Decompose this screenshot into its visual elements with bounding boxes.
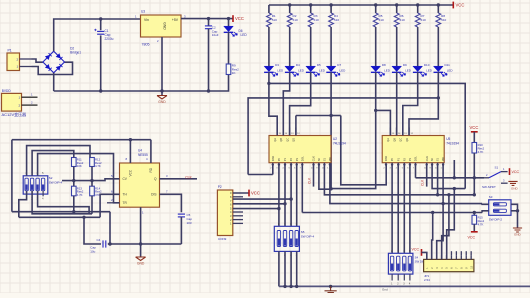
wire JP1 pin4 elbow <box>442 195 449 260</box>
wire U5 MR drop <box>442 165 444 204</box>
svg-text:VCC: VCC <box>456 3 465 8</box>
svg-text:10u: 10u <box>90 250 95 254</box>
ground S3 <box>513 228 522 232</box>
svg-text:D5: D5 <box>317 63 321 67</box>
svg-text:VCC: VCC <box>129 169 133 176</box>
node S1 net junction <box>436 193 439 196</box>
wire JP1 pin stub <box>470 255 472 259</box>
node R10/S1 junction <box>473 176 476 179</box>
wire loop to 555 TH <box>100 194 119 217</box>
wire bottom loop h1 <box>12 211 110 213</box>
node gnd column junction <box>139 242 142 245</box>
connector P2 <box>217 190 232 236</box>
svg-text:QD: QD <box>405 138 409 142</box>
wire S1 throw1 stub <box>501 171 508 173</box>
svg-text:P2: P2 <box>289 157 293 161</box>
wire R3 to LED <box>310 27 312 66</box>
svg-text:7805: 7805 <box>142 43 150 47</box>
svg-text:4.7K: 4.7K <box>478 222 484 226</box>
node loop/C4 junction <box>108 242 111 245</box>
LED D7 <box>326 66 336 71</box>
svg-text:P1: P1 <box>396 157 400 161</box>
svg-text:U3: U3 <box>141 10 145 14</box>
wire U2 CLK stub <box>313 165 315 187</box>
capacitor C5 103 <box>178 213 185 215</box>
svg-text:CON9: CON9 <box>218 237 227 241</box>
op-amp U2 74LS194 shift register <box>269 136 331 163</box>
node rail/R7 junction <box>416 3 419 6</box>
svg-text:+5V: +5V <box>172 18 179 22</box>
LED D3 <box>264 66 274 71</box>
wire S3 out1 to gnd <box>511 204 518 228</box>
wire C4 to C5 column <box>108 243 182 245</box>
wire JP1 bare pin <box>465 251 467 255</box>
resistor R7 510 <box>415 13 420 27</box>
wire JP1 pin stub <box>450 255 452 259</box>
power VCC top right <box>452 2 454 9</box>
wire U2 S0 right <box>319 165 331 190</box>
wire net DSL to S3 <box>302 212 482 214</box>
wire U2 P1 column to DIP <box>284 165 286 227</box>
wire U2 DSR left <box>248 174 273 176</box>
wire S3 pin2 <box>482 211 489 213</box>
svg-text:QB: QB <box>392 138 396 142</box>
wire D7 net to U2 pin QD <box>296 115 331 117</box>
wire S2-1 bottom loop <box>19 191 27 218</box>
svg-text:P2: P2 <box>402 157 406 161</box>
wire R12 to R14 <box>91 167 93 187</box>
wire P2 stub <box>233 196 243 198</box>
svg-text:CLK: CLK <box>185 176 192 180</box>
wire U2 DSR drop <box>272 165 274 175</box>
svg-text:U2: U2 <box>333 137 337 141</box>
wire P1 pin1 to bridge AC2 <box>32 62 73 74</box>
svg-text:Bridge1: Bridge1 <box>70 50 81 54</box>
svg-text:510: 510 <box>400 18 405 22</box>
wire R6 top <box>396 5 398 13</box>
svg-text:CLK: CLK <box>308 177 312 184</box>
svg-text:QC: QC <box>285 138 289 142</box>
LED D10 <box>413 66 423 71</box>
resistor R6 510 <box>394 13 399 27</box>
svg-text:GND: GND <box>514 233 522 237</box>
wire JP1 pin5 elbow <box>447 189 455 260</box>
wire 555 DIS stub <box>160 193 167 195</box>
wire R junction net to 555 CV <box>62 179 120 181</box>
wire P2 pin7 net <box>233 203 285 205</box>
svg-text:GND: GND <box>137 261 145 265</box>
wire R15 to VCC <box>473 224 475 232</box>
wire JP1 pin stub <box>431 255 433 259</box>
wire R11 to R13 <box>73 167 75 187</box>
wire S5 pin2 to gnd bus <box>290 251 292 286</box>
LED D8 <box>371 66 381 71</box>
wire 555 OUT <box>160 178 198 180</box>
wire stub right riser <box>453 160 455 178</box>
svg-text:1K: 1K <box>232 71 236 75</box>
node C1/rail junction <box>99 17 102 20</box>
wire 555 pin4 up <box>150 140 152 163</box>
wire long net from U2 DSR riser <box>248 98 438 175</box>
node rail/R8 junction <box>437 3 440 6</box>
svg-text:QC: QC <box>399 138 403 142</box>
wire S4 bottom stub <box>409 274 411 280</box>
node MR net junction <box>441 202 444 205</box>
power VCC S1 <box>509 168 511 175</box>
wire U5 S1 drop <box>437 165 439 195</box>
svg-text:SW-SPDT: SW-SPDT <box>482 185 496 189</box>
power VCC R15 <box>471 231 478 233</box>
svg-text:510: 510 <box>272 18 277 22</box>
wire R2 to LED <box>289 27 291 66</box>
connector JP1 <box>424 259 474 271</box>
wire 555 gnd pin down <box>140 207 142 256</box>
svg-text:D7: D7 <box>337 63 341 67</box>
svg-text:LED: LED <box>426 68 433 72</box>
wire jog to cascade <box>331 115 341 117</box>
svg-text:510: 510 <box>293 18 298 22</box>
wire left outer loop vertical <box>11 140 13 212</box>
svg-text:U5: U5 <box>446 137 450 141</box>
wire JP1 bare pin <box>455 251 457 255</box>
svg-text:DSR: DSR <box>271 156 275 162</box>
wire P1 pin1 stub <box>20 66 32 68</box>
wire S2-1 to R12 top <box>27 146 90 176</box>
svg-text:C4: C4 <box>97 238 101 242</box>
wire cascade QD to U5 DSR <box>341 116 386 185</box>
svg-text:GND: GND <box>158 100 166 104</box>
wire R5 to LED <box>375 27 377 66</box>
wire JP1 bare pin <box>470 251 472 255</box>
wire D8 cathode to U5 pin QA <box>376 72 391 136</box>
wire JP1 bare pin <box>450 251 452 255</box>
svg-text:D10: D10 <box>424 63 430 67</box>
svg-text:VCC: VCC <box>470 125 479 130</box>
node D11 net junction <box>437 96 440 99</box>
svg-text:D6: D6 <box>239 29 243 33</box>
wire C2 top <box>208 19 210 26</box>
node R12/R14 junction <box>90 179 93 182</box>
svg-text:DSL: DSL <box>414 156 418 162</box>
resistor R4 510 <box>329 13 334 27</box>
svg-text:QA: QA <box>386 138 390 142</box>
wire S1 common stub <box>484 177 489 179</box>
wire JP1 pin3 elbow <box>437 204 443 260</box>
node P2-7 junction <box>283 202 286 205</box>
node JP1-5 junction <box>453 187 456 190</box>
wire S3 out2 <box>511 210 518 212</box>
wire P2 pin8 net <box>233 198 291 200</box>
svg-text:CLK: CLK <box>421 179 425 186</box>
node JP1-4 junction <box>447 193 450 196</box>
svg-text:P2: P2 <box>218 185 222 189</box>
wire loop h217 <box>19 216 100 218</box>
wire JP1 pin2 riser <box>432 213 433 260</box>
svg-text:DSL: DSL <box>300 156 304 162</box>
resistor R14 4.7K <box>90 186 95 196</box>
wire JP1 pin stub <box>455 255 457 259</box>
wire 555 pin8 up <box>129 140 131 163</box>
resistor R11 10K <box>72 158 77 167</box>
wire bridge - down to gnd rail <box>53 73 55 91</box>
wire R3 top <box>310 5 312 13</box>
wire P2 pin6 net <box>233 208 279 210</box>
svg-text:2200u: 2200u <box>105 37 114 41</box>
node rail/R3 junction <box>309 3 312 6</box>
wire BVDD pin2 stub <box>22 104 38 106</box>
svg-text:VCC: VCC <box>512 170 520 174</box>
bridge rectifier D2 <box>43 51 65 73</box>
wire VCC to JP1 pin1 <box>422 252 427 259</box>
svg-text:Gnd: Gnd <box>382 288 388 292</box>
wire JP1 pin stub <box>460 255 462 259</box>
wire 555 TH stub <box>112 193 120 195</box>
svg-text:74LS194: 74LS194 <box>333 141 346 145</box>
svg-text:4.7K: 4.7K <box>478 150 484 154</box>
LED D5 <box>306 66 316 71</box>
node D8 net junction <box>374 109 377 112</box>
resistor R9 1K <box>226 64 231 75</box>
wire C1 top <box>100 19 102 30</box>
ground GND bus <box>329 285 332 288</box>
node C1/gnd-rail junction <box>99 89 102 92</box>
wire top VCC rail <box>269 4 453 6</box>
node C2/gnd-rail junction <box>207 89 210 92</box>
wire U2 P3 column to DIP <box>296 165 298 227</box>
wire BVDD pin1 stub <box>22 96 38 98</box>
wire C1 bottom <box>100 35 102 91</box>
svg-text:510: 510 <box>441 18 446 22</box>
wire S3 pin1 <box>482 203 489 206</box>
wire U5 P0 column to DIP <box>391 165 393 254</box>
svg-text:D3: D3 <box>275 63 279 67</box>
svg-text:510: 510 <box>379 18 384 22</box>
wire D6 anode <box>228 19 230 27</box>
wire VCC to R10 <box>473 132 475 143</box>
wire JP1 pin stub <box>426 255 428 259</box>
node P2-6 junction <box>277 207 280 210</box>
node S0/cascade junction <box>329 187 332 190</box>
svg-text:P1: P1 <box>283 157 287 161</box>
wire S2-4 stub <box>42 191 44 197</box>
switch S4 SW DIP-4 <box>388 253 413 274</box>
svg-text:GND: GND <box>511 187 519 191</box>
svg-text:TH: TH <box>123 193 128 197</box>
wire U2 pin QD drop <box>295 116 297 136</box>
svg-text:CLK: CLK <box>425 156 429 161</box>
LED D11 <box>434 66 444 71</box>
wire R4 to LED <box>330 27 332 66</box>
svg-text:MR: MR <box>328 157 332 161</box>
svg-text:LED: LED <box>447 68 454 72</box>
capacitor C4 10u <box>102 240 104 247</box>
svg-text:VCC: VCC <box>468 236 476 240</box>
node C4 branch junction <box>82 216 85 219</box>
wire S5 pin1 to gnd bus <box>284 251 286 286</box>
svg-text:4.7K: 4.7K <box>95 164 101 168</box>
wire U5 CLK stub <box>426 165 428 187</box>
svg-text:QA: QA <box>273 138 277 142</box>
wire U5 P3 column to DIP <box>409 165 411 254</box>
svg-text:LED: LED <box>405 68 412 72</box>
ground GND 555 <box>136 257 146 260</box>
wire loop drop right <box>109 212 111 244</box>
wire C4 branch <box>84 217 101 244</box>
wire JP1 pin stub <box>436 255 438 259</box>
wire S2-2 to R11 top <box>32 151 74 176</box>
svg-text:P3: P3 <box>408 157 412 161</box>
svg-text:DSR: DSR <box>384 156 388 162</box>
wire P2 stub <box>233 222 243 224</box>
wire regulator out to VCC <box>181 18 233 20</box>
svg-text:Vin: Vin <box>144 18 149 22</box>
power VCC R10 <box>471 131 478 133</box>
node R13/loop junction <box>72 210 75 213</box>
wire R8 to LED <box>437 27 439 66</box>
wire D3 cathode to U2 pin QA <box>269 72 277 136</box>
wire R1 top <box>268 5 270 13</box>
wire U2 DSL drop <box>301 165 303 213</box>
svg-text:4.7K: 4.7K <box>77 193 83 197</box>
wire 555 top net left <box>12 139 151 141</box>
svg-text:AC12V变压器: AC12V变压器 <box>2 111 27 117</box>
wire JP1 pin stub <box>446 255 448 259</box>
wire D10 cathode to U5 pin QC <box>403 72 418 136</box>
wire U2 S1 long net <box>324 165 474 195</box>
wire 555 TR stub <box>107 202 120 204</box>
svg-text:LED: LED <box>340 68 347 72</box>
svg-text:10uF: 10uF <box>212 33 219 37</box>
svg-text:510: 510 <box>421 18 426 22</box>
wire S2-3 bottom loop <box>38 191 90 214</box>
svg-text:SW DIP-4: SW DIP-4 <box>49 180 63 184</box>
wire D9 cathode to U5 pin QB <box>396 72 398 136</box>
wire R4 top <box>330 5 332 13</box>
svg-text:LED: LED <box>298 68 305 72</box>
node rail/R5 junction <box>374 3 377 6</box>
resistor R12 4.7K <box>90 158 95 167</box>
svg-text:CLK: CLK <box>312 156 316 161</box>
svg-text:LED: LED <box>277 68 284 72</box>
svg-text:QB: QB <box>279 138 283 142</box>
wire R15 top <box>473 213 475 216</box>
wire S2-2 bottom to R14 <box>32 191 92 214</box>
node bus junction <box>289 285 292 288</box>
svg-text:BVDD: BVDD <box>2 89 12 93</box>
resistor R2 510 <box>287 13 292 27</box>
svg-text:10K: 10K <box>77 164 82 168</box>
node C2 top junction <box>207 17 210 20</box>
node D7 net junction <box>329 114 332 117</box>
wire S4 bottom stub <box>403 274 405 280</box>
switch S3 SW DIP-2 <box>489 200 511 216</box>
ground GND regulator <box>157 96 167 99</box>
wire P2 stub <box>233 219 243 221</box>
LED D4 <box>285 66 295 71</box>
svg-text:S0: S0 <box>317 157 321 161</box>
wire R13 bottom <box>73 196 75 212</box>
connector P1 <box>7 53 20 71</box>
svg-text:D4: D4 <box>296 63 300 67</box>
wire JP1 pin stub <box>465 255 467 259</box>
svg-text:P1: P1 <box>8 49 12 53</box>
wire U2 MR long net <box>330 165 482 204</box>
svg-text:U4: U4 <box>138 149 142 153</box>
wire U5 P2 column to DIP <box>403 165 405 254</box>
wire JP1 pin stub <box>441 255 443 259</box>
svg-text:GND: GND <box>163 22 167 30</box>
LED D9 <box>392 66 402 71</box>
node 555 pin8 junction <box>129 138 132 141</box>
svg-text:VCC: VCC <box>251 191 260 196</box>
svg-text:SW DIP-2: SW DIP-2 <box>489 218 503 222</box>
svg-text:510: 510 <box>314 18 319 22</box>
svg-text:P3: P3 <box>295 157 299 161</box>
node R15 top junction <box>473 211 476 214</box>
resistor R1 510 <box>267 13 272 27</box>
wire R1 to LED <box>268 27 270 66</box>
node riser junction <box>453 176 456 179</box>
wire R6 to LED <box>396 27 398 66</box>
wire S5 pin3 to gnd bus <box>296 251 298 286</box>
wire D4 cathode to U2 pin QB <box>283 72 289 136</box>
op-amp U5 74LS194 shift register <box>382 136 444 163</box>
svg-text:MR: MR <box>441 157 445 161</box>
node R11/R13 junction <box>72 179 75 182</box>
node S3 junction <box>516 209 519 212</box>
svg-text:S1: S1 <box>495 166 499 170</box>
wire U5 S0 to right column <box>432 165 465 189</box>
node bus junction <box>295 285 298 288</box>
svg-text:74LS194: 74LS194 <box>446 141 459 145</box>
node bus junction <box>283 285 286 288</box>
node D6 top junction <box>227 17 230 20</box>
svg-text:SW DIP-4: SW DIP-4 <box>301 234 315 238</box>
node R10/S1net junction <box>473 193 476 196</box>
wire bridge + to regulator Vin <box>54 19 141 51</box>
power VCC P2 <box>248 190 250 197</box>
wire C2 bottom <box>208 29 210 91</box>
wire bottom bus <box>279 285 530 287</box>
wire R8 top <box>437 5 439 13</box>
svg-text:DIS: DIS <box>151 193 156 197</box>
resistor R3 510 <box>308 13 313 27</box>
svg-text:VCC: VCC <box>235 16 244 21</box>
svg-text:RD: RD <box>149 167 153 172</box>
svg-text:QD: QD <box>292 138 296 142</box>
wire R2 top <box>289 5 291 13</box>
power VCC JP1 <box>421 249 423 256</box>
node rail/R6 junction <box>395 3 398 6</box>
wire P2 stub <box>233 215 243 217</box>
node rail/R2 junction <box>288 3 291 6</box>
wire JP1 bare pin <box>460 251 462 255</box>
wire U2 P2 column to DIP <box>290 165 292 227</box>
wire R10 down <box>473 153 475 195</box>
wire S2-3 to 555 TR <box>38 154 120 203</box>
op-amp U4 NE555 timer <box>120 163 160 207</box>
wire U2 P0 column to DIP <box>278 165 280 227</box>
voltage regulator U3 7805 <box>141 15 182 37</box>
svg-text:D8: D8 <box>382 63 386 67</box>
resistor R5 510 <box>373 13 378 27</box>
wire P1 pin2 stub <box>20 58 32 60</box>
svg-text:S1: S1 <box>436 157 440 161</box>
wire D7 cathode down / cascade loop <box>331 72 376 189</box>
power VCC +5V rail <box>232 15 234 22</box>
wire U5 P1 column to DIP <box>397 165 399 254</box>
svg-text:510: 510 <box>334 18 339 22</box>
